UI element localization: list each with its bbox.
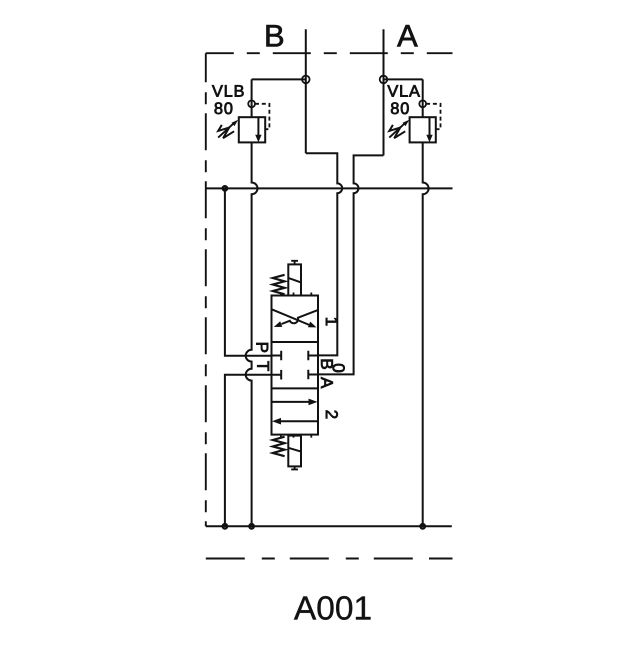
junction tank rail / T wire bbox=[223, 524, 228, 529]
tank return rail bbox=[206, 525, 452, 527]
top solenoid pin bbox=[291, 261, 298, 265]
P supply rail bbox=[206, 187, 453, 189]
position 0 blocked port B bbox=[308, 351, 318, 361]
directional valve body bbox=[272, 296, 319, 435]
valve bottom edge attachment ticks bbox=[281, 435, 311, 438]
node VLB vent circle bbox=[248, 100, 255, 107]
position 0 blocked port P bbox=[272, 351, 282, 361]
wire port A branch to relief valve VLA bbox=[384, 79, 423, 117]
section boundary top chain line bbox=[206, 52, 453, 54]
wire port A to valve port A (hops P rail) bbox=[318, 155, 384, 374]
port A label bbox=[397, 25, 418, 46]
position 1 crossed arrow P-A bbox=[272, 310, 309, 325]
VLB spring zigzag bbox=[218, 125, 234, 138]
bottom return spring bbox=[273, 437, 285, 457]
valve position label 0 bbox=[333, 364, 345, 372]
node VLA vent circle bbox=[419, 100, 426, 107]
port B label bbox=[267, 25, 284, 46]
position 2 straight arrow P-B bbox=[272, 401, 309, 403]
top solenoid bbox=[288, 264, 301, 295]
VLB setting 80 bbox=[215, 102, 233, 114]
wire port B to valve port B (hops P rail) bbox=[306, 153, 342, 355]
wire port A vertical bbox=[383, 29, 385, 155]
junction tank rail / VLB drain bbox=[249, 524, 254, 529]
section boundary bottom chain line bbox=[206, 558, 414, 560]
relief valve VLB body bbox=[239, 117, 265, 142]
VLA pilot dashed line bbox=[426, 104, 440, 129]
VLB adjustable spring arrow bbox=[218, 123, 234, 137]
relief valve VLA body bbox=[410, 117, 436, 142]
node port B circle bbox=[302, 76, 310, 84]
bottom solenoid bbox=[288, 436, 301, 467]
valve port label T bbox=[257, 361, 269, 371]
wire P feed to valve P port bbox=[225, 188, 272, 355]
valve section divider 0/2 bbox=[272, 387, 319, 389]
VLB internal flow arrow bbox=[257, 117, 259, 135]
valve port label P bbox=[256, 343, 268, 352]
valve top edge attachment ticks bbox=[281, 293, 311, 296]
position 0 blocked port T bbox=[272, 370, 282, 380]
valve port label A bbox=[321, 377, 333, 388]
relief valve VLB label bbox=[212, 85, 244, 96]
position 2 straight arrow A-T bbox=[281, 420, 318, 422]
top return spring bbox=[273, 275, 285, 295]
relief valve VLA label bbox=[387, 85, 420, 96]
VLA adjustable spring arrow bbox=[389, 123, 405, 137]
bottom solenoid pin bbox=[291, 466, 298, 469]
position 0 blocked port A bbox=[308, 370, 318, 380]
section title A001 bbox=[294, 596, 371, 620]
wire VLB drain to tank rail (hops P rail, P and T wires) bbox=[246, 142, 258, 526]
VLA spring zigzag bbox=[389, 125, 405, 138]
wire port B vertical bbox=[305, 29, 307, 153]
wire valve T port to tank rail bbox=[225, 375, 272, 527]
junction P rail / P feed bbox=[223, 186, 228, 191]
VLA internal flow arrow bbox=[429, 117, 431, 135]
wire port B branch to relief valve VLB bbox=[252, 79, 306, 117]
VLB pilot dashed line bbox=[255, 104, 269, 129]
VLA setting 80 bbox=[391, 102, 409, 114]
wire VLA drain to tank rail (hops P rail) bbox=[423, 142, 429, 526]
node port A circle bbox=[380, 76, 388, 84]
valve port label B bbox=[321, 360, 333, 369]
valve section divider 1/0 bbox=[272, 341, 319, 343]
section boundary left chain line bbox=[205, 53, 207, 526]
junction tank rail / VLA drain bbox=[420, 524, 425, 529]
valve position label 2 bbox=[326, 411, 338, 419]
position 1 crossed arrow B-T with hop bbox=[282, 310, 318, 324]
valve position label 1 bbox=[326, 318, 338, 325]
